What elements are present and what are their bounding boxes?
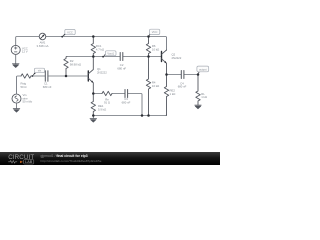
wire collector row y=56.5 xyxy=(67,56,162,58)
svg-text:http://circuitlab.com/c/7bu2d4: http://circuitlab.com/c/7bu2d4k8ve87p9cs… xyxy=(41,159,102,163)
svg-text:vin: vin xyxy=(38,69,42,73)
svg-text:1 kΩ: 1 kΩ xyxy=(201,95,207,99)
svg-text:Vout1: Vout1 xyxy=(107,52,114,56)
svg-text:gjpmod1 / final circuit for el: gjpmod1 / final circuit for elp3 xyxy=(41,154,88,158)
node flag output xyxy=(198,70,200,74)
svg-text:680 nF: 680 nF xyxy=(122,101,131,105)
node flag VCC (right) xyxy=(149,33,152,37)
transistor Q2 2N2222 xyxy=(161,52,163,62)
wire Rsig to C1 xyxy=(31,75,45,77)
svg-text:LAB: LAB xyxy=(25,160,33,164)
resistor RL 1k xyxy=(196,75,200,106)
node flag vin xyxy=(32,72,36,77)
svg-text:1 kΩ: 1 kΩ xyxy=(170,92,176,96)
resistor R4 10k xyxy=(146,57,150,116)
resistor RC1 4.7k xyxy=(91,37,95,57)
junction dots xyxy=(65,35,200,117)
ground below RE1 xyxy=(90,116,97,123)
svg-text:98.98 kΩ: 98.98 kΩ xyxy=(70,62,81,66)
wire bottom rail xyxy=(93,115,166,116)
svg-text:10 kΩ: 10 kΩ xyxy=(152,84,159,88)
resistor Re 91 xyxy=(102,91,112,95)
svg-text:50 mVp: 50 mVp xyxy=(23,99,33,103)
svg-text:12 V: 12 V xyxy=(22,50,28,54)
ground below Vin xyxy=(13,109,20,113)
wire source to ground xyxy=(15,54,17,63)
capacitor C2 680nF xyxy=(120,53,123,61)
wire Q1 emitter row xyxy=(93,94,142,116)
node flag VCC (left) xyxy=(62,33,66,37)
wire C1 to Q1 base xyxy=(48,75,88,77)
resistor RE1 5.9k xyxy=(91,94,95,116)
capacitor C4 680nF xyxy=(181,71,184,79)
resistor RE2 1k xyxy=(164,75,168,116)
svg-text:VCC: VCC xyxy=(152,30,158,34)
svg-text:50 Ω: 50 Ω xyxy=(21,85,27,89)
resistor Rsig 50 xyxy=(21,74,31,78)
svg-text:VCC: VCC xyxy=(67,30,73,34)
wire AC source up to Rsig xyxy=(17,76,22,94)
node flag Vout1 xyxy=(103,53,107,57)
voltage source VCC 12V xyxy=(11,45,20,54)
ground below RL xyxy=(195,105,202,109)
svg-text:2N2222: 2N2222 xyxy=(97,71,107,75)
svg-text:5.9 kΩ: 5.9 kΩ xyxy=(98,108,106,112)
resistor R6 10k xyxy=(146,37,150,57)
ammeter AM1 xyxy=(39,33,46,40)
svg-text:680 nF: 680 nF xyxy=(43,85,52,89)
wire output row xyxy=(167,74,199,76)
svg-text:output: output xyxy=(199,67,207,71)
transistor Q1 2N2222 xyxy=(87,71,89,81)
capacitor C1 680nF xyxy=(45,71,48,81)
svg-text:3.638 mA: 3.638 mA xyxy=(37,44,49,48)
wire AC source to ground xyxy=(16,103,18,108)
AC source Vin sine xyxy=(12,94,21,103)
svg-text:2N2222: 2N2222 xyxy=(172,56,182,60)
svg-text:91 Ω: 91 Ω xyxy=(104,101,110,105)
svg-text:4.7 kΩ: 4.7 kΩ xyxy=(96,47,104,51)
svg-text:680 nF: 680 nF xyxy=(117,67,126,71)
svg-text:10 kΩ: 10 kΩ xyxy=(152,47,159,51)
wire top VCC rail xyxy=(16,37,167,51)
svg-text:680 nF: 680 nF xyxy=(178,85,187,89)
resistor R2 98.98k (collector feedback) xyxy=(64,57,68,77)
ground below V1 xyxy=(12,64,19,68)
capacitor C3 680nF xyxy=(125,90,128,98)
